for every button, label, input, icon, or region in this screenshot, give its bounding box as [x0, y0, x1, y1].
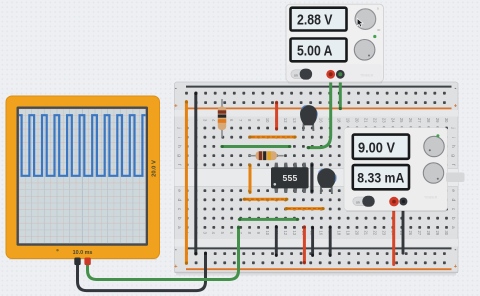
svg-text:g: g [176, 154, 181, 157]
wire green row d [238, 218, 298, 221]
svg-text:19: 19 [346, 118, 351, 123]
breadboard shadow [176, 273, 456, 276]
breadboard column numbers [184, 118, 449, 236]
wire orange across channel [249, 164, 252, 194]
svg-text:12: 12 [283, 230, 288, 235]
oscilloscope body [6, 96, 160, 259]
svg-text:30: 30 [444, 118, 449, 123]
svg-text:10.0 ms: 10.0 ms [73, 250, 93, 256]
svg-text:g: g [450, 154, 455, 157]
svg-text:b: b [450, 217, 456, 220]
svg-text:12: 12 [283, 118, 288, 123]
resistor R2 horizontal [249, 151, 284, 160]
wire red top rail to row f [275, 101, 278, 130]
power supply power toggle [291, 69, 312, 80]
svg-text:-: - [455, 85, 457, 91]
svg-text:22: 22 [372, 118, 377, 123]
wire orange rail jumper left [185, 101, 188, 265]
svg-text:21: 21 [363, 230, 368, 235]
wire black rail jumper left [194, 92, 197, 255]
svg-text:-: - [455, 247, 457, 253]
op-amp timer U1 555 [271, 163, 309, 193]
power supply current knob [354, 40, 375, 61]
multimeter current display [353, 165, 409, 189]
multimeter knob 2 [423, 163, 443, 183]
svg-text:20.0 V: 20.0 V [151, 160, 157, 177]
wire black row e to minus rail [275, 226, 278, 257]
svg-text:b: b [176, 217, 182, 220]
svg-text:d: d [176, 198, 182, 201]
power supply voltage knob [355, 7, 381, 33]
multimeter body [344, 128, 465, 211]
multimeter power toggle [353, 196, 375, 207]
svg-text:j: j [450, 126, 456, 128]
svg-text:16: 16 [319, 118, 324, 123]
breadboard rail lines [186, 87, 452, 270]
svg-text:555: 555 [283, 173, 298, 183]
wire black across channel [311, 164, 314, 193]
svg-text:28: 28 [426, 230, 431, 235]
power supply LED [373, 35, 376, 38]
svg-text:2.88 V: 2.88 V [297, 12, 333, 29]
svg-text:21: 21 [363, 118, 368, 123]
power supply terminals [326, 70, 344, 79]
capacitor C2 [317, 168, 336, 194]
svg-text:e: e [450, 189, 455, 192]
multimeter probes [389, 197, 407, 207]
wire green PSU negative lead [339, 75, 342, 110]
svg-text:TINKER: TINKER [360, 74, 374, 78]
svg-text:10: 10 [265, 118, 270, 123]
svg-text:29: 29 [435, 118, 440, 123]
svg-text:19: 19 [346, 230, 351, 235]
svg-text:27: 27 [417, 230, 422, 235]
breadboard plus minus labels [174, 85, 458, 270]
oscilloscope shadow [9, 258, 157, 261]
wire orange row g [249, 136, 296, 139]
multimeter LED [436, 134, 439, 137]
capacitor C1 [300, 105, 317, 131]
svg-text:23: 23 [381, 230, 386, 235]
power supply current display [291, 39, 347, 62]
svg-text:on: on [356, 201, 360, 205]
wire black multimeter probe [402, 204, 405, 253]
breadboard rail holes [185, 92, 446, 264]
svg-text:13: 13 [292, 118, 297, 123]
wire green oscilloscope to breadboard [88, 226, 241, 280]
svg-text:d: d [450, 198, 456, 201]
svg-text:29: 29 [435, 230, 440, 235]
svg-text:26: 26 [408, 230, 413, 235]
wire green row h [221, 145, 291, 148]
svg-text:e: e [176, 189, 181, 192]
wire orange row b [243, 198, 288, 201]
resistor R1 vertical [218, 99, 226, 138]
svg-text:30: 30 [377, 28, 381, 32]
breadboard main grid holes [186, 127, 448, 229]
multimeter knob 1 [424, 136, 444, 156]
svg-text:a: a [176, 226, 181, 229]
breadboard body [175, 82, 459, 273]
wire black row e to minus rail 2 [311, 226, 314, 256]
oscilloscope screen [17, 107, 149, 246]
power supply body [286, 4, 384, 82]
power supply shadow [288, 81, 382, 84]
svg-text:on: on [294, 73, 298, 77]
svg-text:18: 18 [337, 118, 342, 123]
svg-text:24: 24 [390, 118, 395, 123]
breadboard row letters [176, 126, 456, 229]
svg-text:h: h [450, 145, 456, 148]
svg-text:10: 10 [265, 230, 270, 235]
svg-text:h: h [176, 145, 182, 148]
power supply voltage display [291, 8, 347, 31]
svg-text:27: 27 [417, 118, 422, 123]
svg-text:26: 26 [408, 118, 413, 123]
wire black row e to minus rail 3 [329, 226, 332, 256]
wire red row e to plus rail [303, 226, 306, 264]
svg-text:18: 18 [337, 230, 342, 235]
mouse cursor [357, 18, 363, 27]
svg-text:TINKER: TINKER [424, 196, 438, 200]
oscilloscope waveform [19, 115, 146, 176]
svg-text:25: 25 [399, 118, 404, 123]
svg-text:j: j [176, 126, 182, 128]
svg-text:8.33 mA: 8.33 mA [357, 170, 404, 186]
wire black oscilloscope to breadboard [78, 252, 208, 291]
svg-text:9.00 V: 9.00 V [358, 140, 395, 157]
svg-text:a: a [450, 226, 455, 229]
svg-text:-: - [175, 247, 177, 253]
multimeter shadow [346, 210, 446, 213]
wire red multimeter probe [392, 204, 395, 265]
multimeter voltage display [353, 135, 409, 159]
oscilloscope terminals [74, 258, 91, 266]
wire green PSU positive lead [307, 75, 331, 149]
svg-text:30: 30 [444, 230, 449, 235]
svg-text:22: 22 [372, 230, 377, 235]
svg-text:13: 13 [292, 230, 297, 235]
svg-text:20: 20 [354, 230, 359, 235]
svg-text:5.00 A: 5.00 A [297, 43, 333, 60]
svg-text:i: i [450, 137, 456, 138]
svg-text:-: - [175, 85, 177, 91]
svg-text:28: 28 [426, 118, 431, 123]
wire orange row c [285, 207, 324, 210]
svg-text:i: i [176, 137, 182, 138]
svg-text:23: 23 [381, 118, 386, 123]
svg-text:16: 16 [319, 230, 324, 235]
svg-text:20: 20 [354, 118, 359, 123]
